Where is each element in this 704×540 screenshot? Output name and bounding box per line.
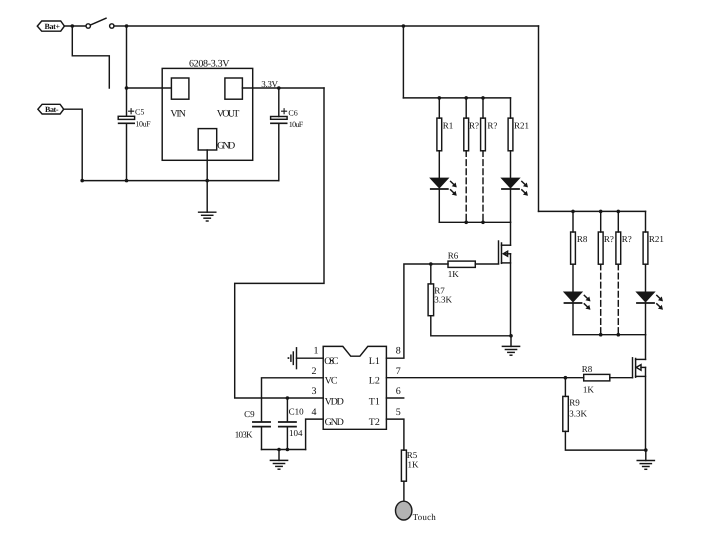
wire C10 drop <box>286 398 288 421</box>
IC U2 body <box>323 346 386 429</box>
ground GND1 <box>199 181 216 221</box>
svg-text:10uF: 10uF <box>289 120 304 129</box>
connector Bat+ <box>37 21 64 31</box>
junction dot R1 top <box>438 96 442 100</box>
wire pin4 GND drop <box>306 419 324 449</box>
svg-text:R1: R1 <box>443 120 454 130</box>
LED D4 <box>637 292 662 309</box>
svg-text:3.3V: 3.3V <box>261 79 278 89</box>
LED D3 <box>565 292 590 309</box>
capacitor C6 <box>271 109 304 130</box>
svg-text:Bat-: Bat- <box>45 105 59 114</box>
svg-text:T1: T1 <box>369 397 380 408</box>
svg-text:1K: 1K <box>448 269 460 279</box>
wire C9 bottom <box>261 428 263 450</box>
svg-text:C10: C10 <box>289 407 305 417</box>
svg-text:3.3K: 3.3K <box>569 409 587 419</box>
junction dot C6 tap <box>277 86 281 90</box>
svg-text:Bat+: Bat+ <box>45 22 61 31</box>
junction dot A <box>71 24 75 28</box>
svg-text:Touch: Touch <box>413 512 437 522</box>
wire D1 to bottom rail <box>438 189 440 222</box>
resistor R21 bank2 <box>643 211 664 264</box>
svg-text:R?: R? <box>469 120 479 130</box>
svg-text:VOUT: VOUT <box>217 109 240 120</box>
junction dot bank2 bot b <box>617 333 621 337</box>
junction dot bank1 bot a <box>464 221 468 225</box>
wire switch to top rail <box>114 25 127 27</box>
svg-text:VIN: VIN <box>170 109 185 120</box>
svg-text:VC: VC <box>325 376 338 387</box>
svg-text:T2: T2 <box>369 417 380 428</box>
wire R7 to Q1 source rail <box>431 316 511 336</box>
wire VOUT to 3.3V net <box>242 87 324 89</box>
svg-text:R6: R6 <box>448 250 459 260</box>
svg-text:L1: L1 <box>369 356 380 367</box>
resistor R8 <box>565 364 609 395</box>
svg-text:8: 8 <box>396 346 401 357</box>
wire pin8 L1 to gate net <box>386 264 430 358</box>
wire R5 to touch pad <box>403 481 405 501</box>
regulator U1 6208-3.3V <box>162 58 253 160</box>
junction dot VIN tap <box>125 86 129 90</box>
svg-text:R?: R? <box>487 120 497 130</box>
svg-text:R?: R? <box>622 234 632 244</box>
wire bank2 top rail <box>539 210 646 212</box>
wire bank1 bottom rail <box>439 221 510 223</box>
junction dot bank2 bot a <box>599 333 603 337</box>
resistor Rb3 <box>616 211 632 264</box>
svg-text:4: 4 <box>312 407 317 418</box>
junction dot bank1 bot b <box>481 221 485 225</box>
svg-text:L2: L2 <box>369 376 380 387</box>
ground GND-Q1 <box>502 334 519 355</box>
svg-text:6208-3.3V: 6208-3.3V <box>189 58 230 69</box>
capacitor C5 <box>118 108 151 129</box>
junction dot Bat- corner <box>80 179 84 183</box>
resistor R5 <box>401 450 419 481</box>
junction dot R8-R9 <box>564 376 568 380</box>
wire C10 bottom <box>286 428 288 450</box>
wire D2 to bottom rail <box>510 189 512 222</box>
transistor Q1 <box>499 241 511 336</box>
svg-text:1: 1 <box>314 346 319 357</box>
svg-text:5: 5 <box>396 407 401 418</box>
junction dot C10 bottom <box>286 448 290 452</box>
svg-text:104: 104 <box>289 428 303 438</box>
resistor R9 <box>563 378 588 432</box>
wire pin6 T1 stub <box>386 397 403 399</box>
svg-text:R21: R21 <box>514 120 529 130</box>
junction dot R3 top <box>481 96 485 100</box>
wire dashed ellipsis bank2 b <box>617 264 619 335</box>
wire bank1 to Q1 drain <box>510 222 512 245</box>
wire pin5 T2 to R5 <box>386 419 404 450</box>
ground GND2 <box>270 450 287 470</box>
wire ground rail <box>82 180 279 182</box>
wire bank1 supply drop <box>402 26 404 98</box>
svg-text:3.3K: 3.3K <box>434 294 452 304</box>
junction dot C5-gnd <box>125 179 129 183</box>
junction dot C <box>402 24 406 28</box>
resistor Rb2 <box>598 211 614 264</box>
svg-text:GND: GND <box>325 417 344 428</box>
svg-text:7: 7 <box>396 366 401 377</box>
wire R6 to Q1 gate <box>475 263 498 265</box>
wire Vin rail upper <box>126 26 128 116</box>
junction dot R8b top <box>571 210 575 214</box>
wire R9 to Q2 source rail <box>565 431 645 450</box>
wire Bat+ to switch <box>64 25 86 27</box>
wire bank2 to Q2 drain <box>645 335 647 360</box>
wire C6 bottom <box>278 123 280 180</box>
junction dot b2c top <box>617 210 621 214</box>
svg-text:R?: R? <box>604 234 614 244</box>
connector Bat- <box>38 104 64 114</box>
wire pin2 VC to C9 <box>262 378 324 421</box>
svg-text:C5: C5 <box>135 108 144 117</box>
wire C6 top <box>278 88 280 117</box>
LED D1 <box>431 178 456 195</box>
svg-text:C9: C9 <box>244 409 255 419</box>
junction dot R6-R7 <box>429 262 433 266</box>
wire bank2 supply drop <box>538 26 540 211</box>
capacitor C10 <box>279 407 304 439</box>
junction dot B <box>125 24 129 28</box>
svg-text:10uF: 10uF <box>135 119 151 128</box>
wire to VIN pin <box>127 87 172 89</box>
wire dashed ellipsis bank1 a <box>465 151 467 223</box>
wire top rail <box>127 25 539 27</box>
wire pin7 L2 to gate2 net <box>386 377 565 379</box>
svg-text:3: 3 <box>312 386 317 397</box>
resistor R2 <box>464 98 479 151</box>
LED D2 <box>502 178 527 195</box>
touch pad TP1 <box>396 501 412 520</box>
resistor R21 <box>508 98 529 151</box>
svg-text:R8: R8 <box>582 364 593 374</box>
wire R1 to LED D1 <box>438 151 440 179</box>
junction dot agnd stem <box>277 448 281 452</box>
junction dot C10 top <box>286 396 290 400</box>
wire Bat- down <box>64 109 82 180</box>
wire R21 to LED D2 <box>510 151 512 179</box>
transistor Q2 <box>633 358 646 450</box>
switch S1 <box>86 18 114 28</box>
capacitor C9 <box>235 409 270 439</box>
svg-text:C6: C6 <box>288 109 297 118</box>
svg-text:1K: 1K <box>583 385 595 395</box>
svg-text:R8: R8 <box>577 234 588 244</box>
resistor R6 <box>431 250 476 279</box>
svg-text:103K: 103K <box>235 429 253 439</box>
resistor R1 <box>437 98 453 151</box>
junction dot b2b top <box>599 210 603 214</box>
ground GND-Q2 <box>637 448 654 469</box>
resistor R3 <box>481 98 498 151</box>
svg-text:6: 6 <box>396 386 401 397</box>
wire dashed ellipsis bank1 b <box>482 151 484 223</box>
wire R8b to LED D3 <box>572 264 574 292</box>
osc terminator Y1 <box>288 348 297 369</box>
resistor R8 bank2 <box>571 211 588 264</box>
svg-text:OSC: OSC <box>324 356 339 367</box>
svg-text:R9: R9 <box>569 397 580 407</box>
wire R8 to Q2 gate <box>610 377 633 379</box>
wire dashed ellipsis bank2 a <box>600 264 602 335</box>
wire bank2 bottom rail <box>573 334 646 336</box>
wire 3.3V to VDD feed <box>235 88 324 398</box>
svg-text:1K: 1K <box>408 459 420 469</box>
wire C5 bottom <box>126 123 128 180</box>
wire D4 to bottom rail <box>645 303 647 335</box>
wire bank1 top rail <box>403 97 510 99</box>
svg-text:GND: GND <box>217 141 235 152</box>
wire R21b to LED D4 <box>645 264 647 292</box>
svg-text:VDD: VDD <box>325 397 344 408</box>
junction dot R2 top <box>464 96 468 100</box>
junction dot GND rail <box>205 179 209 183</box>
wire GND pin stem <box>206 150 208 181</box>
wire pin1 OSC <box>297 357 324 359</box>
resistor R7 <box>428 264 452 316</box>
wire D3 to bottom rail <box>572 303 574 335</box>
svg-text:2: 2 <box>312 366 317 377</box>
svg-text:R21: R21 <box>649 234 664 244</box>
wire switch frame stub <box>72 26 109 88</box>
wire analog gnd rail <box>262 449 306 451</box>
